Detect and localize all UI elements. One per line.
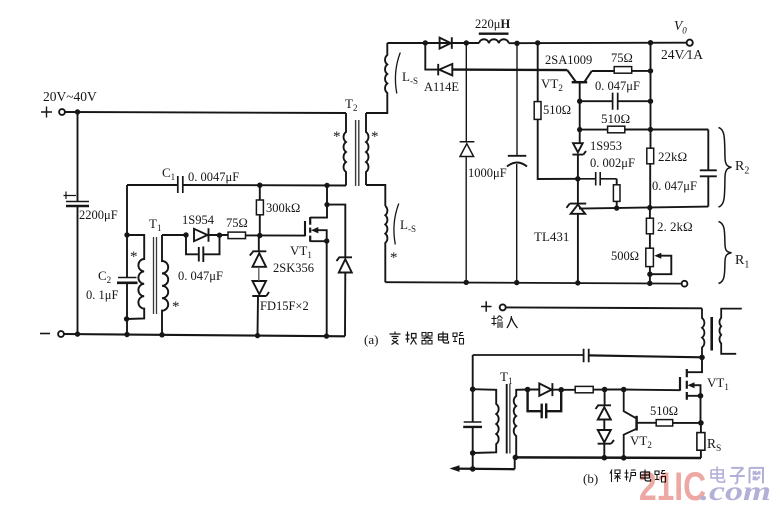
svg-text:0. 0047μF: 0. 0047μF bbox=[188, 170, 239, 184]
junction dots rail B bbox=[75, 331, 80, 336]
diode FD15F upper bbox=[250, 251, 266, 266]
mosfet VT1 drain lead bbox=[310, 185, 327, 217]
svg-text:*: * bbox=[172, 299, 180, 315]
junction dot 1S954 cathode bbox=[217, 233, 222, 238]
transformer T1b primary winding bbox=[473, 389, 499, 453]
svg-text:2. 2kΩ: 2. 2kΩ bbox=[657, 219, 693, 234]
diode snubber bbox=[337, 257, 353, 272]
brace R2 bbox=[719, 128, 732, 208]
svg-text:0. 1μF: 0. 1μF bbox=[86, 288, 118, 302]
wire 510b to source bbox=[673, 422, 701, 424]
junction dot diode b anode bbox=[525, 387, 531, 393]
wire 1S953 to tap bbox=[577, 155, 579, 204]
svg-text:510Ω: 510Ω bbox=[601, 111, 630, 126]
mosfet VT1 gate bar bbox=[304, 221, 306, 236]
junction dot 300k top bbox=[257, 183, 262, 188]
wire T2 sec top link bbox=[366, 97, 387, 113]
junction dot 510 top bbox=[535, 40, 540, 45]
wire control box top edge right bbox=[183, 184, 346, 187]
junction dot base cap tap bbox=[577, 99, 582, 104]
wire 2.2k to 500 bbox=[649, 234, 651, 248]
transformer T1 primary winding bbox=[127, 235, 145, 319]
junction dot base 510 tap bbox=[577, 127, 582, 132]
transistor VT2b emitter bbox=[624, 429, 637, 458]
junction dot zener node bbox=[602, 387, 608, 393]
resistor 300k bbox=[256, 200, 263, 215]
wire bottom rail B bbox=[64, 334, 345, 336]
resistor 510R h bbox=[608, 126, 625, 133]
winding LS upper bbox=[385, 43, 387, 97]
wire 510 v bottom bbox=[538, 119, 578, 179]
zener b upper bbox=[596, 405, 612, 419]
capacitor 1000uF bbox=[508, 155, 527, 157]
wire TL431 to rail C bbox=[577, 214, 579, 283]
polarity mark 2200uF bbox=[64, 192, 77, 200]
plus terminal mark bbox=[41, 107, 52, 118]
wire b top branch bbox=[473, 354, 583, 356]
junction dot fb1 bbox=[614, 205, 619, 210]
mosfet VT1 body arrow bbox=[317, 230, 327, 241]
junction dot gate node bbox=[257, 233, 262, 238]
junction dot drain node b bbox=[699, 355, 705, 361]
brace R1 bbox=[719, 222, 732, 284]
wire source to Rs bbox=[700, 423, 702, 433]
wire base node to gate bbox=[624, 389, 680, 392]
svg-text:500Ω: 500Ω bbox=[611, 249, 639, 263]
svg-text:VT1: VT1 bbox=[707, 375, 729, 392]
svg-text:RS: RS bbox=[707, 436, 721, 454]
svg-text:L-S: L-S bbox=[400, 217, 416, 234]
junction dot base node b bbox=[621, 387, 627, 393]
junction dot ground stub bbox=[470, 466, 476, 472]
wire cap 0.047 left bbox=[580, 100, 612, 102]
diode flyback bbox=[460, 142, 475, 157]
transformer T2 secondary mid winding bbox=[366, 113, 368, 185]
wire A114E branch down bbox=[425, 43, 438, 70]
wire 300k top bbox=[259, 185, 261, 200]
capacitor 0.047uF snubber loop bbox=[186, 235, 220, 262]
junction dot T1b sec bottom bbox=[513, 455, 519, 461]
wire 75R to gate bbox=[246, 234, 306, 236]
diode 1S954 bbox=[194, 228, 209, 241]
svg-text:(b): (b) bbox=[583, 471, 598, 486]
junction dot diode b cathode bbox=[558, 387, 564, 393]
wire FD15F to rail bbox=[257, 296, 260, 336]
svg-text:VT1: VT1 bbox=[290, 243, 312, 260]
svg-text:2SK356: 2SK356 bbox=[273, 261, 314, 275]
shunt reg TL431 bbox=[567, 204, 587, 214]
mosfet VT1 channel bar bbox=[309, 217, 311, 242]
wire input down to C-2200 bbox=[77, 112, 79, 201]
transformer T2 primary winding bbox=[344, 113, 346, 186]
resistor 22k bbox=[647, 148, 654, 164]
mosfet VT1b channel bar bbox=[686, 369, 688, 400]
mosfet VT1b gate bar bbox=[679, 377, 681, 391]
transformer b2 left winding bbox=[702, 308, 704, 357]
capacitor 0.047uF base bbox=[613, 93, 618, 110]
svg-text:*: * bbox=[130, 249, 138, 265]
svg-text:T1: T1 bbox=[500, 369, 512, 386]
svg-text:VT2: VT2 bbox=[541, 76, 563, 93]
wire base down bbox=[579, 82, 581, 143]
svg-text:510Ω: 510Ω bbox=[543, 103, 571, 117]
wire 510 v top bbox=[537, 43, 539, 102]
svg-text:75Ω: 75Ω bbox=[611, 51, 633, 65]
capacitor 0.047uF fb bbox=[700, 169, 717, 171]
wire b left vertical upper bbox=[472, 355, 474, 389]
wire T1 secondary to diode bbox=[162, 234, 186, 236]
wire zener to rail b bbox=[603, 444, 605, 458]
wire diode b to resistor bbox=[552, 389, 575, 391]
capacitor coupling b bbox=[584, 349, 589, 362]
svg-text:20V~40V: 20V~40V bbox=[43, 89, 97, 104]
svg-text:VT2: VT2 bbox=[630, 433, 652, 450]
caption a CJK bianhuanqi dianlu bbox=[390, 332, 464, 345]
minus terminal mark bbox=[40, 333, 50, 335]
wire input b to transformer bbox=[506, 306, 702, 309]
bracket LS lower bbox=[394, 204, 399, 245]
svg-text:*: * bbox=[371, 129, 379, 145]
wire control box left edge upper bbox=[126, 185, 128, 277]
junction dot 1S954 anode bbox=[183, 232, 188, 237]
node dot left edge top tap bbox=[124, 232, 129, 237]
svg-text:T1: T1 bbox=[149, 216, 161, 233]
watermark CJK dianziwang bbox=[711, 467, 763, 484]
input - terminal circle bbox=[58, 331, 64, 337]
wire rail A right of inductor bbox=[509, 42, 687, 45]
junction dot 0.002 tap bbox=[575, 176, 580, 181]
wire zener branch top bbox=[604, 390, 606, 406]
transformer T1 core bbox=[154, 237, 157, 314]
input + terminal circle bbox=[59, 109, 65, 115]
wire 1000uF branch upper bbox=[516, 43, 518, 155]
transformer T1b core bbox=[506, 384, 508, 454]
resistor 2.2k bbox=[646, 218, 653, 234]
wire resistor b to zener node bbox=[593, 389, 604, 391]
svg-text:24V∕1A: 24V∕1A bbox=[661, 47, 703, 62]
wire flyback branch upper bbox=[465, 43, 467, 142]
resistor feedback small bbox=[616, 179, 618, 185]
junction dot 1000uF top bbox=[514, 41, 519, 46]
wire fb to 2.2k bbox=[649, 208, 651, 219]
capacitor 0.002uF bbox=[578, 172, 617, 186]
svg-text:L-S: L-S bbox=[402, 69, 418, 86]
diode FD15F lower bbox=[252, 281, 269, 296]
transistor 2SA1009 emitter bbox=[567, 70, 575, 82]
svg-text:0. 047μF: 0. 047μF bbox=[595, 79, 640, 93]
wire control box top edge left bbox=[127, 184, 177, 186]
resistor 510R b bbox=[656, 420, 673, 426]
svg-text:0. 002μF: 0. 002μF bbox=[590, 156, 635, 170]
wire 300k bottom bbox=[259, 215, 261, 236]
wire output rail A left bbox=[387, 42, 479, 44]
transistor 2SA1009 base bar bbox=[572, 81, 588, 84]
junction dot wiper bbox=[647, 272, 652, 277]
wire 22k to fb bbox=[649, 164, 651, 208]
zener b lower bbox=[598, 430, 614, 444]
wire snubber diode to rail bbox=[344, 273, 346, 337]
svg-text:2SA1009: 2SA1009 bbox=[545, 53, 592, 67]
svg-text:0. 047μF: 0. 047μF bbox=[178, 269, 223, 283]
output terminal circle bbox=[687, 40, 693, 46]
junction dot input bbox=[75, 109, 80, 114]
resistor series b bbox=[575, 386, 593, 392]
svg-text:FD15F×2: FD15F×2 bbox=[260, 299, 309, 313]
wire rail b bbox=[515, 456, 701, 459]
junction dot rail emitter bbox=[621, 455, 627, 461]
junction dot flyback bbox=[464, 40, 469, 45]
pot wiper arrow bbox=[650, 256, 671, 275]
wire zener node to base node bbox=[605, 389, 624, 391]
potentiometer 500R bbox=[646, 248, 654, 266]
wire gate node down bbox=[258, 236, 260, 252]
caption b CJK baohu dianlu bbox=[610, 470, 666, 483]
junction dot b left top bbox=[470, 386, 476, 392]
transistor 2SA1009 collector bbox=[585, 71, 592, 82]
node dot left edge bottom tap bbox=[124, 316, 129, 321]
wire cap 0.047 right bbox=[618, 100, 650, 102]
transformer b2 right winding bbox=[719, 309, 741, 354]
transformer b2 core bbox=[710, 317, 713, 351]
ground arrowhead bbox=[450, 465, 460, 472]
junction dot node 510 bbox=[648, 127, 653, 132]
svg-text:A114E: A114E bbox=[424, 80, 459, 94]
wire 0.047 right branch top bbox=[707, 130, 709, 171]
wire node V1 down bbox=[650, 43, 652, 149]
capacitor snubber loop b bbox=[528, 390, 562, 419]
wire 510 h left bbox=[580, 129, 608, 131]
transformer T1 secondary winding bbox=[162, 235, 168, 335]
svg-text:220μH: 220μH bbox=[475, 17, 510, 31]
resistor Rs bbox=[697, 433, 705, 451]
junction dot A114E anode bbox=[423, 40, 428, 45]
mosfet VT1b body arrow bbox=[693, 385, 701, 396]
wire control box left edge lower bbox=[126, 284, 128, 335]
wire drain tap to snubber diode bbox=[327, 205, 345, 257]
wire stub up to rail b bbox=[514, 458, 516, 470]
transformer T1b secondary winding bbox=[514, 390, 528, 458]
svg-text:0. 047μF: 0. 047μF bbox=[652, 179, 697, 193]
svg-text:R2: R2 bbox=[735, 159, 749, 177]
transistor VT2b bar bbox=[635, 416, 638, 431]
junction dot rail zener bbox=[602, 455, 608, 461]
wire b left vertical lower bbox=[472, 427, 474, 469]
diode A114E lower bbox=[438, 64, 452, 76]
junction dots rail C bbox=[464, 280, 469, 285]
svg-text:C2: C2 bbox=[98, 268, 111, 285]
wire feedback node h bbox=[579, 207, 708, 209]
wire A114E to 2SA1009 emitter bbox=[452, 68, 567, 71]
output common terminal circle bbox=[682, 281, 688, 287]
junction dot drain top bbox=[324, 183, 329, 188]
resistor 75R output bbox=[614, 67, 632, 74]
mosfet VT1b drain lead bbox=[687, 357, 702, 372]
junction dot node cap bbox=[648, 99, 653, 104]
wire 500 to rail C bbox=[649, 267, 651, 284]
svg-text:*: * bbox=[333, 129, 341, 145]
junction dot fb2 bbox=[647, 205, 652, 210]
wire between zeners bbox=[603, 420, 605, 431]
capacitor C1 bbox=[178, 176, 183, 193]
wire collector to 75R bbox=[592, 70, 615, 72]
svg-text:75Ω: 75Ω bbox=[226, 216, 248, 230]
winding LS lower bbox=[385, 206, 387, 282]
inductor 220uH core bar bbox=[479, 33, 509, 35]
caption input CJK shuru bbox=[492, 316, 518, 329]
wire 0.047 right branch bottom bbox=[707, 176, 709, 206]
resistor 75R gate bbox=[228, 232, 246, 239]
svg-text:22kΩ: 22kΩ bbox=[658, 149, 687, 164]
resistor 510R v bbox=[534, 102, 541, 120]
wire b left vertical mid bbox=[472, 389, 474, 422]
wire 1S954 to resistor bbox=[209, 234, 229, 236]
junction dot drain tap bbox=[324, 202, 329, 207]
diode A114E upper bbox=[440, 37, 452, 49]
svg-text:1S954: 1S954 bbox=[182, 213, 215, 227]
bracket LS upper bbox=[395, 53, 400, 94]
wire T2 sec bottom link bbox=[366, 185, 385, 206]
diode b bbox=[528, 383, 553, 396]
junction dot node V1 bbox=[648, 68, 653, 73]
svg-text:1S953: 1S953 bbox=[590, 139, 622, 153]
wire b top branch right bbox=[589, 355, 702, 357]
svg-text:.com: .com bbox=[700, 476, 771, 506]
junction dot source b bbox=[698, 393, 704, 399]
svg-text:510Ω: 510Ω bbox=[650, 404, 678, 418]
svg-text:(a): (a) bbox=[364, 332, 378, 347]
svg-text:T2: T2 bbox=[345, 96, 357, 113]
mosfet VT1 source lead bbox=[310, 241, 327, 336]
wire flyback branch lower bbox=[465, 157, 467, 283]
junction dot source bbox=[324, 238, 329, 243]
svg-text:R1: R1 bbox=[735, 253, 749, 271]
capacitor b left bbox=[464, 421, 482, 423]
svg-text:300kΩ: 300kΩ bbox=[266, 201, 300, 215]
transistor VT2b collector bbox=[624, 390, 637, 419]
mosfet VT1b source lead bbox=[687, 396, 701, 423]
transistor VT2b base lead bbox=[637, 422, 657, 424]
input b terminal circle bbox=[500, 304, 506, 310]
capacitor 2200uF bbox=[66, 201, 89, 203]
svg-text:2200μF: 2200μF bbox=[79, 208, 118, 222]
transformer T2 core bbox=[356, 120, 359, 186]
diode 1S953 bbox=[572, 143, 586, 154]
wire between FD15F bbox=[258, 267, 260, 281]
svg-text:21IC: 21IC bbox=[639, 465, 706, 509]
svg-text:V0: V0 bbox=[674, 18, 687, 36]
svg-text:C1: C1 bbox=[162, 165, 175, 182]
wire 510 h right bbox=[625, 129, 709, 131]
wire top rail A bbox=[65, 112, 346, 113]
junction dot b left bottom bbox=[470, 450, 476, 456]
svg-text:1000μF: 1000μF bbox=[468, 166, 507, 180]
junction dot 75R out bbox=[648, 40, 653, 45]
wire 1000uF branch lower bbox=[516, 164, 518, 283]
wire 2200uF down to rail B bbox=[77, 206, 79, 334]
svg-text:*: * bbox=[390, 250, 398, 266]
wire 75R to node bbox=[632, 70, 651, 72]
plus mark input b bbox=[481, 301, 492, 312]
svg-text:TL431: TL431 bbox=[534, 229, 569, 244]
ground stub rail bbox=[455, 467, 515, 470]
inductor 220uH bbox=[479, 39, 509, 43]
wire output rail C bbox=[385, 282, 681, 283]
wire Rs to rail b bbox=[700, 450, 702, 458]
capacitor C2 bbox=[118, 277, 137, 279]
junction dot source node b bbox=[698, 420, 704, 426]
